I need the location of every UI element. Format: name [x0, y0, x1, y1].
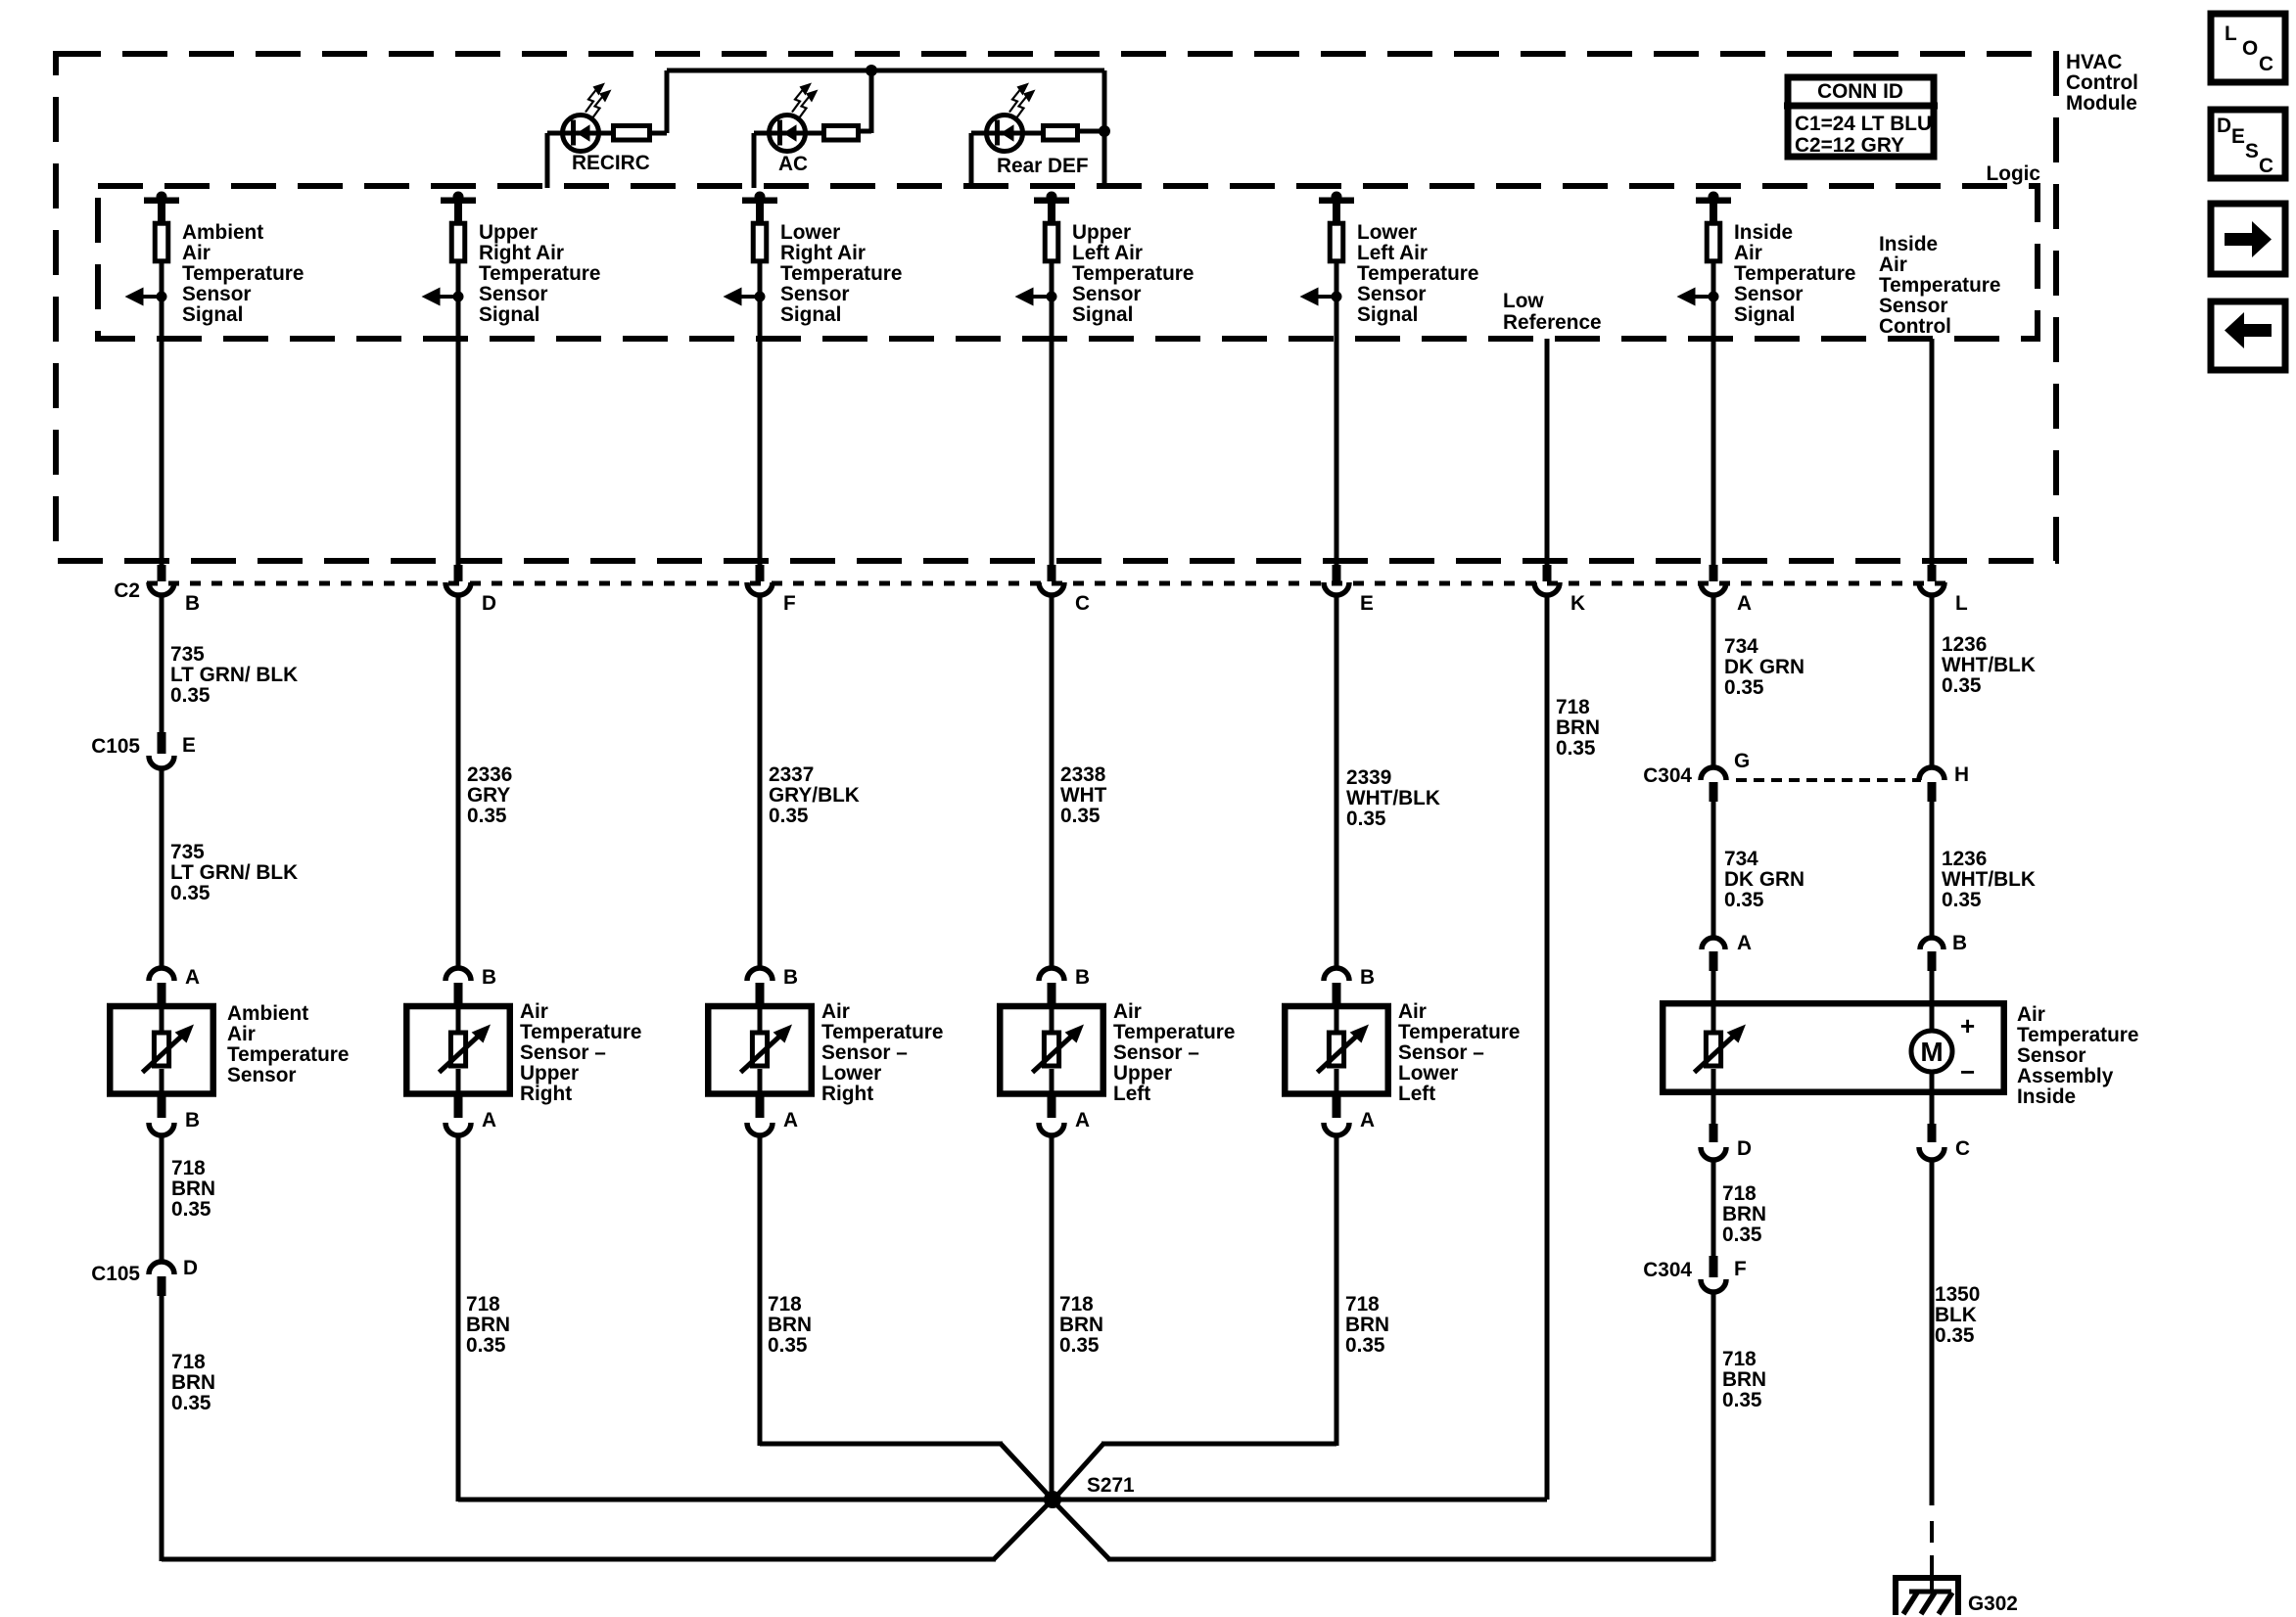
svg-text:BRN: BRN: [171, 1178, 215, 1200]
junction at Rear DEF resistor: [1099, 125, 1110, 137]
nav button LOC: [2211, 14, 2285, 82]
svg-text:Lower: Lower: [1357, 221, 1417, 244]
wire: assembly pin A lead: [1711, 971, 1716, 1003]
connector C105 pin D: [149, 1262, 174, 1274]
svg-text:BRN: BRN: [171, 1371, 215, 1394]
svg-text:B: B: [1360, 966, 1375, 989]
svg-text:0.35: 0.35: [1942, 889, 1981, 911]
resistor: Inside Air pull-up: [1707, 223, 1720, 261]
svg-text:Temperature: Temperature: [1734, 262, 1855, 285]
svg-text:Sensor: Sensor: [1072, 283, 1142, 305]
signal arrow Inside Air: [1677, 288, 1696, 306]
svg-text:C304: C304: [1643, 1259, 1692, 1281]
svg-text:0.35: 0.35: [1724, 889, 1763, 911]
wire through Air Temperature Sensor - Lower Left: [1335, 1003, 1339, 1031]
node: Lower Right Air sensor input: [755, 192, 766, 203]
svg-text:Temperature: Temperature: [780, 262, 902, 285]
svg-text:WHT/BLK: WHT/BLK: [1942, 868, 2036, 891]
svg-text:C: C: [1955, 1137, 1970, 1160]
svg-text:GRY: GRY: [467, 784, 510, 807]
svg-text:Sensor: Sensor: [1879, 295, 1948, 317]
svg-text:BRN: BRN: [768, 1314, 812, 1336]
svg-text:E: E: [2231, 125, 2245, 148]
svg-text:Sensor: Sensor: [182, 283, 252, 305]
pin A of connector C2: [1710, 565, 1718, 581]
svg-text:Signal: Signal: [1357, 303, 1418, 326]
svg-text:D: D: [2217, 115, 2231, 137]
svg-text:0.35: 0.35: [170, 684, 210, 707]
svg-text:A: A: [482, 1109, 496, 1132]
svg-text:Sensor: Sensor: [227, 1064, 297, 1086]
svg-text:B: B: [783, 966, 798, 989]
svg-text:WHT/BLK: WHT/BLK: [1346, 787, 1440, 809]
svg-text:0.35: 0.35: [467, 805, 506, 827]
pin C of assembly: [1930, 1095, 1935, 1126]
junction at AC branch: [866, 65, 877, 76]
svg-text:Temperature: Temperature: [479, 262, 600, 285]
pin L of connector C2: [1928, 565, 1937, 581]
svg-text:Sensor –: Sensor –: [1113, 1041, 1199, 1064]
connector C105 pin E: [158, 732, 166, 754]
svg-text:A: A: [1075, 1109, 1090, 1132]
svg-text:Sensor –: Sensor –: [821, 1041, 908, 1064]
svg-text:Temperature: Temperature: [1072, 262, 1194, 285]
svg-text:0.35: 0.35: [768, 1334, 807, 1357]
HVAC Control Module outer dashed box: [56, 54, 2056, 561]
svg-text:Ambient: Ambient: [182, 221, 263, 244]
wire: 2339 WHT/BLK from connector to sensor: [1335, 597, 1339, 969]
svg-text:L: L: [1955, 592, 1968, 615]
signal arrow Ambient Air: [125, 288, 144, 306]
svg-text:Air: Air: [520, 1000, 548, 1023]
nav button back arrow: [2211, 301, 2285, 370]
svg-text:D: D: [183, 1257, 198, 1279]
wire: 735 LT GRN/BLK from pin B to C105: [160, 597, 164, 733]
node: Upper Right Air sensor input: [453, 192, 464, 203]
wire: 718 BRN lower left to splice: [1335, 1135, 1339, 1446]
pin B of Air Temperature Sensor - Upper Left: [1039, 968, 1064, 981]
svg-text:Left Air: Left Air: [1357, 242, 1428, 264]
svg-text:Sensor –: Sensor –: [520, 1041, 606, 1064]
svg-text:F: F: [1734, 1258, 1747, 1280]
svg-text:B: B: [1075, 966, 1090, 989]
svg-text:Ambient: Ambient: [227, 1002, 308, 1025]
svg-text:Sensor –: Sensor –: [1398, 1041, 1484, 1064]
svg-text:Signal: Signal: [1072, 303, 1133, 326]
node: Ambient Air sensor input: [157, 192, 167, 203]
svg-text:Right: Right: [520, 1083, 572, 1105]
svg-text:AC: AC: [778, 153, 808, 175]
wire: 1350 BLK from assembly C to ground: [1930, 1160, 1935, 1505]
wire through assembly left: [1711, 1003, 1716, 1031]
svg-text:E: E: [182, 734, 196, 757]
pin B of Air Temperature Sensor - Upper Right: [445, 968, 471, 981]
connector C304 dashed link G-H: [1736, 778, 1921, 782]
svg-text:Reference: Reference: [1503, 311, 1602, 334]
svg-text:718: 718: [466, 1293, 500, 1316]
svg-text:Assembly: Assembly: [2017, 1065, 2114, 1087]
svg-text:0.35: 0.35: [466, 1334, 505, 1357]
svg-text:0.35: 0.35: [1059, 1334, 1099, 1357]
svg-text:Right Air: Right Air: [479, 242, 564, 264]
svg-text:Inside: Inside: [2017, 1086, 2076, 1108]
svg-text:Right: Right: [821, 1083, 873, 1105]
svg-text:L: L: [2225, 23, 2237, 45]
svg-text:−: −: [1960, 1057, 1975, 1086]
wire: 718 BRN ambient to splice S271: [160, 1296, 164, 1561]
pin K of connector C2: [1543, 565, 1552, 581]
svg-text:LT GRN/ BLK: LT GRN/ BLK: [170, 861, 298, 884]
svg-text:718: 718: [1556, 696, 1590, 718]
svg-text:Temperature: Temperature: [821, 1021, 943, 1043]
wire: 718 BRN upper right to splice: [456, 1135, 461, 1501]
svg-text:BRN: BRN: [466, 1314, 510, 1336]
wire: 718 BRN lower right to splice: [758, 1135, 763, 1446]
svg-text:2336: 2336: [467, 763, 512, 786]
svg-text:0.35: 0.35: [1346, 808, 1385, 830]
LED indicator Rear DEF: [987, 115, 1023, 152]
svg-text:Inside: Inside: [1879, 233, 1938, 255]
svg-text:718: 718: [1345, 1293, 1380, 1316]
nav button forward arrow: [2211, 204, 2285, 274]
svg-text:Left: Left: [1113, 1083, 1150, 1105]
resistor: Lower Right Air pull-up: [753, 223, 767, 261]
connector C304 pin F: [1710, 1256, 1718, 1277]
svg-text:0.35: 0.35: [1722, 1389, 1761, 1411]
svg-text:Air: Air: [182, 242, 211, 264]
svg-text:GRY/BLK: GRY/BLK: [769, 784, 860, 807]
wire: Low Reference inside module: [1545, 339, 1550, 566]
svg-text:WHT: WHT: [1060, 784, 1107, 807]
svg-text:Upper: Upper: [479, 221, 538, 244]
svg-text:Logic: Logic: [1987, 162, 2040, 185]
wire: 718 BRN upper left to splice: [1050, 1135, 1054, 1500]
svg-text:A: A: [783, 1109, 798, 1132]
svg-text:BRN: BRN: [1059, 1314, 1103, 1336]
svg-text:K: K: [1570, 592, 1585, 615]
svg-text:1236: 1236: [1942, 633, 1987, 656]
wire: 1236 WHT/BLK from pin L to C304 H: [1930, 597, 1935, 767]
wire: Ambient Air column inside module: [160, 263, 164, 566]
svg-text:D: D: [482, 592, 496, 615]
svg-text:A: A: [1737, 592, 1752, 615]
svg-text:718: 718: [768, 1293, 802, 1316]
pin E of connector C2: [1333, 565, 1341, 581]
svg-text:Sensor: Sensor: [2017, 1044, 2086, 1067]
svg-text:Upper: Upper: [520, 1062, 579, 1085]
svg-text:0.35: 0.35: [769, 805, 808, 827]
node: Upper Left Air sensor input: [1047, 192, 1057, 203]
wire through Ambient Air Temperature Sensor: [160, 1003, 164, 1031]
wire: Lower Right Air column inside module: [758, 263, 763, 566]
svg-text:O: O: [2242, 37, 2258, 60]
svg-text:CONN ID: CONN ID: [1817, 80, 1903, 103]
wire: Inside Air column inside module: [1711, 263, 1716, 566]
svg-text:0.35: 0.35: [1724, 676, 1763, 699]
wire: AC left lead: [754, 131, 768, 136]
pin F of connector C2: [756, 565, 765, 581]
pin D of connector C2: [454, 565, 463, 581]
svg-text:Upper: Upper: [1113, 1062, 1172, 1085]
svg-text:C2=12 GRY: C2=12 GRY: [1795, 134, 1904, 157]
svg-text:Air: Air: [1398, 1000, 1427, 1023]
svg-text:Air: Air: [1113, 1000, 1142, 1023]
svg-text:C2: C2: [114, 579, 140, 602]
svg-text:F: F: [783, 592, 796, 615]
svg-text:Temperature: Temperature: [1398, 1021, 1520, 1043]
connector C2 dotted line: [147, 581, 1948, 586]
svg-text:734: 734: [1724, 848, 1758, 870]
svg-text:718: 718: [1059, 1293, 1094, 1316]
svg-text:Signal: Signal: [780, 303, 841, 326]
svg-text:Temperature: Temperature: [1113, 1021, 1235, 1043]
svg-text:+: +: [1960, 1011, 1975, 1040]
signal arrow Upper Left Air: [1015, 288, 1034, 306]
svg-text:718: 718: [1722, 1182, 1757, 1205]
svg-text:C: C: [1075, 592, 1090, 615]
svg-text:Left Air: Left Air: [1072, 242, 1143, 264]
svg-text:735: 735: [170, 643, 205, 666]
svg-text:0.35: 0.35: [1060, 805, 1100, 827]
svg-text:Temperature: Temperature: [1357, 262, 1478, 285]
svg-text:B: B: [185, 1109, 200, 1132]
svg-text:Air: Air: [227, 1023, 256, 1045]
svg-text:Temperature: Temperature: [520, 1021, 641, 1043]
svg-text:718: 718: [171, 1157, 206, 1179]
svg-text:Temperature: Temperature: [227, 1043, 349, 1066]
svg-text:Air: Air: [2017, 1003, 2045, 1026]
pin B of Air Temperature Sensor - Lower Right: [747, 968, 773, 981]
svg-text:Lower: Lower: [821, 1062, 881, 1085]
svg-text:M: M: [1920, 1037, 1943, 1067]
wire: Rear DEF left lead: [971, 131, 985, 136]
svg-text:Sensor: Sensor: [479, 283, 548, 305]
thermistor Air Temperature Sensor - Lower Right: [752, 1033, 767, 1066]
node: Lower Left Air sensor input: [1332, 192, 1342, 203]
resistor Rear DEF: [1044, 126, 1078, 141]
resistor AC: [824, 126, 859, 141]
signal arrow Lower Left Air: [1300, 288, 1319, 306]
wire: Upper Right Air column inside module: [456, 263, 461, 566]
svg-text:0.35: 0.35: [170, 882, 210, 904]
svg-text:Rear DEF: Rear DEF: [997, 155, 1089, 177]
svg-text:735: 735: [170, 841, 205, 863]
wire through assembly right: [1930, 1003, 1935, 1029]
signal arrow Lower Right Air: [724, 288, 742, 306]
svg-text:B: B: [482, 966, 496, 989]
svg-text:718: 718: [1722, 1348, 1757, 1370]
connector C304 pin H: [1919, 767, 1945, 780]
svg-text:H: H: [1954, 763, 1969, 786]
pin A of Air Temperature Sensor - Lower Right: [756, 1096, 765, 1118]
svg-text:Temperature: Temperature: [182, 262, 304, 285]
wire: 735 LT GRN/BLK from C105 to ambient sensor: [160, 770, 164, 969]
resistor: Ambient Air pull-up: [155, 223, 168, 261]
wire: 2336 GRY from connector to sensor: [456, 597, 461, 969]
pin B of Air Temperature Sensor - Lower Left: [1324, 968, 1349, 981]
pin A of Air Temperature Sensor - Upper Left: [1048, 1096, 1056, 1118]
wire: indicator supply bus: [667, 69, 1104, 73]
svg-text:734: 734: [1724, 635, 1758, 658]
svg-text:Inside: Inside: [1734, 221, 1793, 244]
svg-text:0.35: 0.35: [1556, 737, 1595, 760]
signal arrow Upper Right Air: [422, 288, 441, 306]
wire: 734 DK GRN from pin A to C304 G: [1711, 597, 1716, 767]
svg-text:Low: Low: [1503, 290, 1544, 312]
nav button DESC: [2211, 110, 2285, 178]
svg-text:G: G: [1734, 750, 1750, 772]
LED indicator AC: [770, 115, 806, 152]
svg-text:0.35: 0.35: [171, 1392, 211, 1414]
svg-text:0.35: 0.35: [1722, 1224, 1761, 1246]
thermistor Ambient Air Temperature Sensor: [154, 1033, 168, 1066]
svg-text:2337: 2337: [769, 763, 814, 786]
svg-text:Left: Left: [1398, 1083, 1435, 1105]
pin B of Air Temperature Sensor Assembly Inside: [1920, 938, 1944, 949]
svg-text:Right Air: Right Air: [780, 242, 866, 264]
svg-text:DK GRN: DK GRN: [1724, 656, 1804, 678]
resistor: Lower Left Air pull-up: [1330, 223, 1343, 261]
svg-text:E: E: [1360, 592, 1374, 615]
splice S271: [1044, 1491, 1061, 1508]
sensor box: Air Temperature Sensor - Lower Right: [708, 1006, 812, 1094]
svg-text:D: D: [1737, 1137, 1752, 1160]
svg-text:Sensor: Sensor: [780, 283, 850, 305]
svg-text:1236: 1236: [1942, 848, 1987, 870]
pin A of Air Temperature Sensor - Lower Left: [1333, 1096, 1341, 1118]
wire: assembly pin B lead: [1930, 971, 1935, 1003]
svg-text:0.35: 0.35: [1345, 1334, 1384, 1357]
sensor box: Air Temperature Sensor - Upper Right: [406, 1006, 510, 1094]
svg-text:Signal: Signal: [479, 303, 539, 326]
svg-text:B: B: [185, 592, 200, 615]
thermistor inside assembly: [1706, 1033, 1720, 1066]
svg-text:Upper: Upper: [1072, 221, 1131, 244]
svg-text:0.35: 0.35: [1935, 1324, 1974, 1347]
sensor box: Air Temperature Sensor - Upper Left: [1000, 1006, 1103, 1094]
sensor box: Air Temperature Sensor - Lower Left: [1285, 1006, 1388, 1094]
svg-text:DK GRN: DK GRN: [1724, 868, 1804, 891]
pin C of connector C2: [1048, 565, 1056, 581]
svg-text:C: C: [2259, 155, 2273, 177]
node: Inside Air sensor input: [1709, 192, 1719, 203]
svg-text:HVAC: HVAC: [2066, 51, 2122, 73]
LED indicator RECIRC: [563, 115, 599, 152]
svg-text:Control: Control: [1879, 315, 1951, 338]
pin A of Air Temperature Sensor Assembly Inside: [1702, 938, 1725, 949]
wire: Lower Left Air column inside module: [1335, 263, 1339, 566]
svg-text:B: B: [1952, 932, 1967, 954]
wire through Air Temperature Sensor - Upper Left: [1050, 1003, 1054, 1031]
svg-text:2338: 2338: [1060, 763, 1105, 786]
svg-text:C304: C304: [1643, 764, 1692, 787]
svg-text:2339: 2339: [1346, 766, 1391, 789]
wire: 734 DK GRN from C304 G to assembly: [1711, 802, 1716, 939]
wire: 2337 GRY/BLK from connector to sensor: [758, 597, 763, 969]
svg-text:1350: 1350: [1935, 1283, 1980, 1306]
svg-text:S: S: [2245, 140, 2259, 162]
wire: RECIRC left lead: [547, 131, 561, 136]
svg-text:Air: Air: [1879, 254, 1907, 276]
svg-text:BRN: BRN: [1722, 1368, 1766, 1391]
svg-text:Temperature: Temperature: [1879, 274, 2000, 297]
resistor: Upper Right Air pull-up: [451, 223, 465, 261]
svg-text:BRN: BRN: [1556, 716, 1600, 739]
pin A of Air Temperature Sensor - Upper Right: [454, 1096, 463, 1118]
wire: Upper Left Air column inside module: [1050, 263, 1054, 566]
svg-text:WHT/BLK: WHT/BLK: [1942, 654, 2036, 676]
svg-text:Air: Air: [1734, 242, 1762, 264]
svg-text:718: 718: [171, 1351, 206, 1373]
Logic dashed box: [98, 186, 2038, 339]
box: Air Temperature Sensor Assembly Inside: [1663, 1003, 2004, 1092]
thermistor Air Temperature Sensor - Lower Left: [1329, 1033, 1343, 1066]
svg-text:S271: S271: [1087, 1474, 1135, 1497]
svg-text:Signal: Signal: [182, 303, 243, 326]
svg-text:BRN: BRN: [1345, 1314, 1389, 1336]
svg-text:C105: C105: [91, 1263, 140, 1285]
svg-text:Lower: Lower: [780, 221, 840, 244]
svg-text:Sensor: Sensor: [1734, 283, 1804, 305]
svg-text:Signal: Signal: [1734, 303, 1795, 326]
svg-text:0.35: 0.35: [1942, 674, 1981, 697]
svg-text:Module: Module: [2066, 92, 2137, 115]
svg-text:Temperature: Temperature: [2017, 1024, 2138, 1046]
svg-text:A: A: [185, 966, 200, 989]
wire: ambient sensor B to C105 D: [160, 1135, 164, 1262]
pin B of Ambient Air Temperature Sensor: [158, 1096, 166, 1118]
svg-text:C105: C105: [91, 735, 140, 758]
svg-text:Control: Control: [2066, 71, 2138, 94]
resistor RECIRC: [614, 126, 650, 141]
wire: 718 BRN low reference down to splice: [1545, 597, 1550, 1500]
wire through Air Temperature Sensor - Upper Right: [456, 1003, 461, 1031]
svg-text:Air: Air: [821, 1000, 850, 1023]
thermistor Air Temperature Sensor - Upper Left: [1044, 1033, 1058, 1066]
svg-text:C: C: [2259, 53, 2273, 75]
svg-text:BRN: BRN: [1722, 1203, 1766, 1225]
resistor: Upper Left Air pull-up: [1045, 223, 1058, 261]
thermistor Air Temperature Sensor - Upper Right: [450, 1033, 465, 1066]
sensor box: Ambient Air Temperature Sensor: [110, 1006, 213, 1094]
svg-text:C1=24 LT BLU: C1=24 LT BLU: [1795, 113, 1932, 135]
svg-text:Lower: Lower: [1398, 1062, 1458, 1085]
pin B of connector C2: [158, 565, 166, 581]
svg-text:BLK: BLK: [1935, 1304, 1977, 1326]
CONN ID table: [1788, 77, 1934, 157]
svg-text:0.35: 0.35: [171, 1198, 211, 1221]
wire: 718 BRN low reference to splice: [1053, 1498, 1547, 1502]
wire: Inside Air Temperature Sensor Control inside module: [1930, 339, 1935, 566]
pin A of Ambient Air Temperature Sensor: [149, 968, 174, 981]
svg-text:A: A: [1737, 932, 1752, 954]
svg-text:Sensor: Sensor: [1357, 283, 1427, 305]
svg-text:RECIRC: RECIRC: [572, 152, 650, 174]
svg-text:A: A: [1360, 1109, 1375, 1132]
svg-text:LT GRN/ BLK: LT GRN/ BLK: [170, 664, 298, 686]
pin D of assembly: [1711, 1095, 1716, 1126]
motor M aspirator: [1911, 1031, 1952, 1072]
connector C304 pin G: [1701, 767, 1726, 780]
ground G302: [1893, 1575, 1961, 1581]
wire through Air Temperature Sensor - Lower Right: [758, 1003, 763, 1031]
wire: 718 BRN from C304 F to splice: [1711, 1160, 1716, 1259]
wire: 2338 WHT from connector to sensor: [1050, 597, 1054, 969]
svg-text:G302: G302: [1968, 1593, 2018, 1615]
wire: 1236 WHT/BLK from C304 H to assembly: [1930, 802, 1935, 939]
